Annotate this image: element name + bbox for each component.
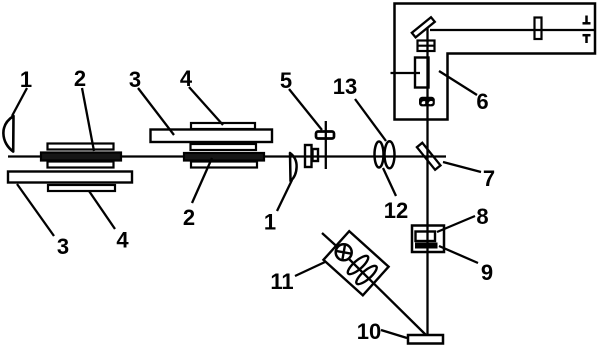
svg-text:9: 9 — [481, 260, 493, 285]
svg-text:1: 1 — [264, 210, 276, 235]
svg-text:6: 6 — [476, 89, 488, 114]
svg-text:2: 2 — [183, 205, 195, 230]
svg-text:5: 5 — [280, 68, 292, 93]
wide plate right (3) — [151, 130, 273, 143]
filter stack left: thin bar top — [48, 144, 114, 150]
leader 9 — [439, 246, 478, 263]
leader 3 top — [138, 88, 174, 135]
svg-text:4: 4 — [180, 66, 193, 91]
leader 4 top — [189, 87, 223, 125]
svg-text:12: 12 — [384, 198, 408, 223]
electrode lead — [391, 72, 421, 74]
leader lines — [12, 71, 481, 338]
lens 13 doublet left — [375, 142, 384, 168]
wire diagonal scattered beam upper — [322, 233, 339, 248]
leader 12 — [383, 168, 396, 196]
end mirror mark top — [583, 16, 591, 24]
attenuator 5 slotted bar — [316, 132, 334, 139]
thin bar top right assembly (4) — [191, 123, 255, 129]
leader 1 bottom — [277, 180, 292, 211]
leader 6 — [439, 71, 477, 95]
attenuator 5 vertical stem — [325, 121, 327, 169]
leader 5 — [289, 89, 322, 130]
leader 2 top — [82, 88, 94, 151]
leader 7 — [443, 162, 481, 172]
wire vertical beam — [426, 27, 428, 336]
svg-text:8: 8 — [476, 204, 488, 229]
slit pair tall element — [305, 145, 312, 167]
svg-text:10: 10 — [357, 319, 381, 344]
slit pair short element — [313, 149, 319, 161]
leader 11 — [295, 262, 325, 276]
modulator cell — [415, 58, 429, 88]
wire laser cavity beam — [430, 29, 594, 31]
svg-text:2: 2 — [74, 66, 86, 91]
leader 3 bottom — [17, 184, 54, 236]
mirror 7 — [417, 143, 441, 170]
lens 12 doublet right — [385, 141, 395, 168]
svg-text:11: 11 — [270, 269, 293, 294]
svg-text:1: 1 — [20, 67, 32, 92]
laser enclosure 6 — [395, 4, 596, 120]
leader 13 — [355, 99, 386, 141]
detector lens loop 1 — [345, 253, 370, 277]
leader 10 — [381, 330, 407, 338]
lens 1 left cylindrical — [3, 116, 13, 152]
leader 1 top — [12, 88, 27, 116]
thin bar mid right assembly — [191, 144, 257, 150]
wire main horizontal optical axis — [8, 155, 446, 157]
thin bar bottom right assembly — [191, 162, 257, 168]
wide plate left (3) — [8, 172, 132, 183]
filter stack left: thin bar mid — [48, 162, 114, 168]
lens 1 small middle — [290, 153, 297, 181]
detector window circle-cross — [335, 244, 351, 260]
wire vertical beam through box 8 — [426, 225, 428, 253]
svg-text:13: 13 — [333, 74, 357, 99]
svg-text:3: 3 — [57, 234, 69, 259]
target mirror 10 — [408, 335, 443, 344]
detector lens loop 2 — [354, 263, 379, 287]
detector housing 11 — [323, 231, 388, 295]
analyzer inner bar 9 — [415, 243, 438, 249]
polarizer dark bar left (2) — [41, 153, 121, 161]
leader 4 bottom — [89, 191, 115, 229]
leader 8 — [437, 216, 475, 232]
intracavity plate — [535, 18, 542, 40]
polarizer dark bar right (2) — [184, 153, 264, 161]
svg-text:3: 3 — [129, 67, 141, 92]
analyzer inner slot 8 — [416, 232, 436, 242]
end mirror mark bottom — [583, 35, 591, 43]
thin bar below plate left (4) — [48, 185, 115, 191]
aperture cup element — [419, 97, 435, 107]
svg-text:7: 7 — [483, 166, 495, 191]
wire diagonal scattered beam lower — [349, 259, 428, 337]
cavity fold mirror — [412, 17, 435, 37]
leader 2 bottom — [192, 158, 212, 203]
etalon in laser — [418, 41, 435, 52]
analyzer box 8 outer — [412, 226, 444, 253]
svg-text:4: 4 — [116, 228, 129, 253]
